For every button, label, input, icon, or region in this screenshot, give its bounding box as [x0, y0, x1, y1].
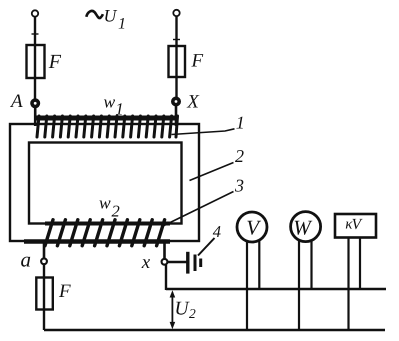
winding w2: [24, 220, 170, 246]
wire: w2 left end down to a: [43, 242, 46, 258]
callout 3: [163, 175, 244, 226]
arrow U2: [170, 290, 176, 329]
wire: a down to bottom bus: [43, 264, 45, 330]
transformer tank (outer rectangle): [10, 124, 199, 241]
tick on left lead: [32, 33, 39, 35]
node A terminal: [32, 100, 38, 106]
fuse F (right): [169, 46, 186, 77]
svg-text:w: w: [99, 193, 111, 213]
bus: bottom return: [44, 329, 385, 331]
svg-text:a: a: [21, 248, 32, 272]
callout 4: [198, 222, 221, 256]
svg-text:U: U: [104, 5, 118, 25]
callout 1: [172, 113, 245, 135]
label w2: [99, 193, 120, 221]
fuse F (secondary): [36, 278, 53, 310]
svg-text:2: 2: [189, 306, 196, 321]
svg-text:1: 1: [118, 15, 126, 32]
svg-text:1: 1: [236, 113, 245, 133]
wire: x down to top bus: [165, 265, 167, 290]
core window (inner rectangle): [29, 143, 182, 224]
kV leads: [347, 239, 349, 331]
svg-text:F: F: [48, 51, 62, 73]
terminal: left supply: [32, 10, 38, 16]
svg-text:A: A: [9, 91, 23, 112]
wire: x right to discharge gap: [168, 261, 187, 263]
svg-text:X: X: [186, 91, 200, 112]
bus: top output: [166, 288, 386, 290]
svg-text:F: F: [58, 281, 71, 302]
svg-text:W: W: [293, 216, 313, 240]
wire: left supply lead: [34, 17, 36, 100]
svg-text:2: 2: [235, 146, 244, 166]
svg-text:x: x: [141, 252, 151, 273]
tick on right lead: [173, 39, 180, 41]
terminal: right supply: [173, 10, 179, 16]
svg-text:F: F: [191, 51, 204, 72]
W leads: [298, 241, 300, 331]
node X terminal: [173, 98, 179, 104]
callout 2: [190, 146, 245, 181]
winding w1: [37, 116, 179, 137]
svg-text:V: V: [352, 216, 363, 233]
wire: w2 right end down to x: [163, 242, 166, 259]
kilovoltmeter kV: [335, 214, 376, 238]
wire: A down to w1: [34, 107, 37, 126]
discharge gap (item 4): [188, 252, 201, 274]
svg-text:2: 2: [112, 202, 120, 221]
label w1: [104, 92, 124, 119]
fuse F (left): [27, 45, 45, 78]
svg-text:1: 1: [115, 100, 124, 119]
svg-text:3: 3: [234, 175, 244, 195]
label ~U1: [86, 5, 126, 32]
V leads: [246, 241, 248, 330]
terminal a: [41, 258, 47, 264]
wire: X down to w1: [175, 105, 178, 126]
terminal x: [162, 259, 168, 265]
wattmeter W: [291, 212, 321, 242]
svg-text:V: V: [246, 216, 261, 240]
voltmeter V: [237, 212, 267, 242]
svg-text:w: w: [104, 92, 116, 112]
wire: right supply lead: [175, 16, 177, 98]
label U2: [175, 298, 197, 321]
